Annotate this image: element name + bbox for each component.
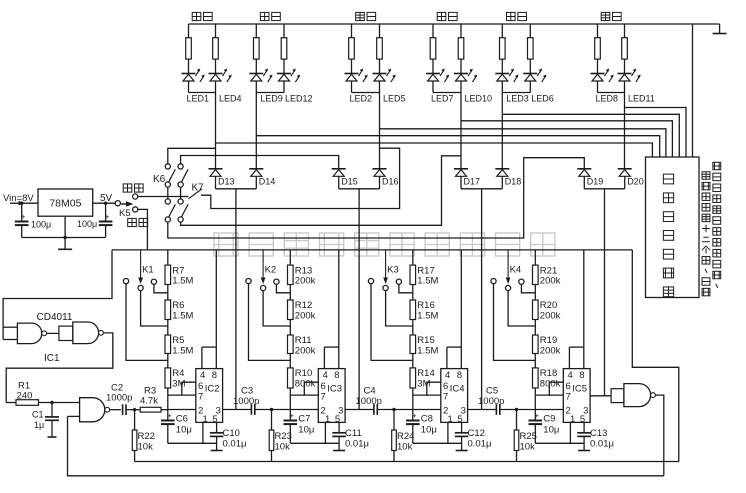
svg-text:10μ: 10μ [298, 425, 314, 436]
svg-text:D15: D15 [341, 177, 358, 187]
svg-text:1.5M: 1.5M [417, 276, 438, 287]
wire pair6 column to diode [624, 93, 626, 169]
svg-text:R6: R6 [172, 300, 184, 311]
wire chain top stage 4 [534, 250, 536, 265]
timer IC3 [318, 369, 345, 425]
LED group LED3 LED6 [495, 24, 546, 93]
svg-text:200k: 200k [295, 276, 316, 287]
wire gate b output loop to R1 [6, 333, 113, 403]
capacitor C2 [122, 404, 124, 415]
svg-text:D18: D18 [505, 177, 522, 187]
ground top right [713, 24, 727, 34]
svg-text:3M: 3M [172, 379, 185, 390]
capacitor C 100u input [15, 203, 29, 237]
resistor R13 [288, 265, 294, 300]
wire pin4 pin8 riser stage 4 [569, 250, 583, 369]
LED group LED2 LED5 [345, 24, 396, 93]
resistor R10 [288, 368, 294, 388]
svg-text:7: 7 [198, 392, 203, 403]
resistor R18 [533, 368, 539, 388]
svg-text:10μ: 10μ [176, 425, 192, 436]
diode D18 [495, 169, 509, 177]
wire K1 right contact [154, 284, 168, 293]
label 红色 [260, 12, 269, 20]
wire pin6 jog stage 3 [427, 382, 441, 395]
svg-text:8: 8 [457, 370, 462, 381]
svg-text:R12: R12 [295, 300, 312, 311]
gate IC1d nand output [611, 384, 655, 407]
svg-text:+: + [105, 212, 110, 221]
wire steering tap 2 [358, 189, 360, 410]
svg-text:C9: C9 [543, 414, 555, 425]
wire pin4 pin8 riser stage 1 [202, 250, 216, 369]
resistor R4 [165, 368, 171, 388]
wire 5V stage bus [112, 249, 632, 251]
resistor R19 [533, 335, 539, 368]
wire pin3 output stage 4 to gate [590, 395, 611, 397]
gate IC1b nand [59, 322, 104, 344]
svg-text:+: + [535, 411, 540, 420]
svg-text:1000p: 1000p [233, 396, 259, 407]
diode D16 [373, 169, 387, 177]
wire pin1 ground stage 1 [168, 422, 217, 443]
wire steering tap 3 [481, 189, 483, 410]
wire K6 contact B to diode D15 [181, 156, 339, 169]
switch K2 [246, 250, 279, 291]
switch K6 [153, 164, 188, 187]
wire K7 blade to D16 riser [201, 148, 400, 208]
svg-text:R14: R14 [417, 368, 434, 379]
wire pin2 input stage 4 [535, 409, 563, 411]
resistor R5 [165, 335, 171, 368]
wire coupling to next stage 3 [377, 408, 413, 411]
svg-text:IC2: IC2 [205, 384, 220, 395]
svg-text:1.5M: 1.5M [172, 346, 193, 357]
wire chain top stage 2 [289, 250, 291, 265]
svg-text:D16: D16 [382, 177, 399, 187]
label 红色 [506, 12, 515, 20]
diode D20 [618, 169, 632, 177]
svg-text:LED9: LED9 [260, 94, 283, 104]
svg-text:200k: 200k [540, 346, 561, 357]
svg-text:1.5M: 1.5M [172, 311, 193, 322]
capacitor C8 [406, 410, 420, 444]
wire bus right leg [632, 250, 679, 462]
capacitor C3 [250, 404, 252, 415]
capacitor C 100u output [99, 203, 113, 237]
resistor R25 [514, 410, 519, 462]
svg-text:IC3: IC3 [327, 384, 342, 395]
svg-text:D20: D20 [627, 177, 644, 187]
svg-text:LED12: LED12 [285, 94, 313, 104]
wire K6 contact A to D13 column [168, 148, 216, 164]
svg-text:100μ: 100μ [77, 219, 97, 229]
svg-text:7: 7 [320, 392, 325, 403]
svg-text:D14: D14 [259, 177, 276, 187]
svg-text:C1: C1 [32, 410, 44, 420]
svg-text:4: 4 [567, 370, 572, 381]
svg-text:LED11: LED11 [628, 94, 655, 104]
svg-text:LED2: LED2 [350, 94, 373, 104]
svg-text:0.01μ: 0.01μ [468, 439, 492, 450]
resistor R15 [410, 335, 416, 368]
svg-text:+: + [167, 411, 172, 420]
wire K2 left contact [249, 284, 291, 361]
svg-text:4: 4 [445, 370, 450, 381]
resistor R23 [269, 410, 274, 462]
svg-text:200k: 200k [295, 346, 316, 357]
svg-text:K6: K6 [153, 174, 166, 185]
wire pin1 ground stage 3 [413, 422, 462, 443]
wire pin2 input stage 1 [168, 409, 196, 411]
resistor R7 [165, 265, 171, 300]
svg-text:LED10: LED10 [465, 94, 493, 104]
ground psu [58, 238, 72, 250]
wire relay channel 3 [380, 129, 666, 157]
wire K3 middle contact [386, 291, 413, 326]
capacitor C6 [161, 410, 175, 444]
wire K7 lower contact B to diode D17 riser [181, 156, 461, 226]
wire manual line to K7 blade [138, 189, 202, 199]
wire steering tap 1 [235, 189, 237, 410]
capacitor C13 [577, 422, 591, 450]
svg-text:R15: R15 [417, 335, 434, 346]
svg-text:800k: 800k [295, 379, 316, 390]
wire pin6 jog stage 1 [182, 382, 196, 395]
switch K4 [491, 250, 524, 291]
label 绿色 [192, 12, 201, 20]
svg-text:CD4011: CD4011 [37, 312, 73, 323]
svg-text:LED8: LED8 [596, 94, 619, 104]
wire R4 bottom to pin7 junction stage 3 [412, 388, 414, 395]
annotation column 控制红绿黄十二个灯，并与 [702, 172, 710, 179]
wire diode pair join 3 [461, 177, 502, 189]
wire diode pair join 4 [584, 177, 624, 189]
wire K7 lower contact A to diode D19 [168, 158, 585, 238]
wire K4 left contact [494, 284, 536, 361]
svg-text:C10: C10 [223, 428, 240, 439]
svg-text:+: + [290, 411, 295, 420]
resistor R1 [6, 400, 79, 406]
resistor R12 [288, 300, 294, 335]
wire 5V output [93, 201, 121, 206]
svg-text:4: 4 [200, 370, 205, 381]
wire diode pair join 1 [216, 177, 257, 189]
resistor R16 [410, 300, 416, 335]
svg-text:R19: R19 [540, 335, 557, 346]
wire pair1 column to diode [215, 93, 217, 169]
svg-text:10k: 10k [397, 442, 413, 453]
svg-text:10k: 10k [138, 442, 154, 453]
wire feedback bottom loop [68, 416, 664, 475]
svg-text:6: 6 [565, 381, 570, 392]
wire K6 pole links [168, 187, 181, 199]
svg-text:1.5M: 1.5M [172, 276, 193, 287]
svg-text:IC5: IC5 [572, 384, 587, 395]
svg-text:0.01μ: 0.01μ [223, 439, 247, 450]
resistor R21 [533, 265, 539, 300]
svg-text:D17: D17 [464, 177, 481, 187]
annotation column 岗亭内显示的红绿灯相像， [713, 162, 721, 169]
wire gate output to bottom loop [655, 395, 663, 476]
svg-text:7: 7 [443, 392, 448, 403]
resistor R11 [288, 335, 294, 368]
svg-text:7: 7 [565, 392, 570, 403]
svg-text:10k: 10k [520, 442, 536, 453]
LED group LED7 LED10 [426, 24, 477, 93]
svg-text:C5: C5 [486, 386, 498, 397]
wire K1 left contact [126, 284, 168, 361]
label 黄色 [356, 12, 365, 20]
resistor R22 [132, 410, 137, 462]
svg-text:+: + [412, 411, 417, 420]
wire pair2 column to diode [255, 93, 257, 169]
ground stage 1 [211, 450, 223, 452]
wire pin3 output stage 3 [468, 409, 497, 411]
svg-text:K3: K3 [387, 265, 399, 276]
svg-text:C7: C7 [298, 414, 310, 425]
resistor R3 [140, 407, 168, 412]
svg-text:IC1: IC1 [44, 353, 60, 364]
svg-text:R16: R16 [417, 300, 434, 311]
svg-text:C4: C4 [364, 386, 376, 397]
svg-text:IC4: IC4 [450, 384, 465, 395]
resistor R24 [392, 410, 397, 462]
svg-text:R22: R22 [138, 431, 155, 442]
svg-text:D13: D13 [218, 177, 235, 187]
svg-text:K1: K1 [142, 265, 154, 276]
node 5V selector arrow [121, 201, 133, 207]
svg-text:1.5M: 1.5M [417, 346, 438, 357]
svg-text:8: 8 [334, 370, 339, 381]
diode D14 [249, 169, 263, 177]
svg-text:10k: 10k [275, 442, 291, 453]
wire K2 middle contact [263, 291, 290, 326]
LED group LED8 LED11 [591, 24, 641, 93]
wire relay channel 6 [625, 108, 687, 158]
wire chain top stage 1 [167, 250, 169, 265]
svg-text:4.7k: 4.7k [140, 396, 158, 407]
wire Vin input [10, 201, 38, 205]
svg-text:+: + [21, 212, 26, 221]
capacitor C12 [455, 422, 469, 450]
gate IC1a nand [3, 323, 47, 344]
wire pin3 output stage 1 [223, 409, 252, 411]
wire pin7 node to signal stage 4 [535, 395, 563, 409]
switch K3 [368, 250, 401, 291]
wire pin1 ground stage 2 [290, 422, 339, 443]
svg-text:C6: C6 [176, 414, 188, 425]
wire pin4 pin8 riser stage 3 [447, 250, 461, 369]
svg-text:R23: R23 [275, 431, 292, 442]
wire top supply rail [189, 23, 720, 25]
svg-text:C12: C12 [468, 428, 485, 439]
wire R4 bottom to pin7 junction stage 1 [167, 388, 169, 395]
svg-text:K4: K4 [510, 265, 522, 276]
wire K1 middle contact [141, 291, 168, 326]
svg-text:LED3: LED3 [506, 94, 529, 104]
svg-text:8: 8 [579, 370, 584, 381]
svg-text:8: 8 [212, 370, 217, 381]
label 自动 [128, 218, 137, 226]
wire K2 right contact [276, 284, 290, 293]
wire rail to relay box [692, 24, 694, 157]
wire K4 middle contact [508, 291, 535, 326]
wire pin2 input stage 3 [413, 409, 441, 411]
svg-text:1000p: 1000p [106, 393, 132, 404]
wire steering tap 4 [604, 189, 606, 396]
svg-text:6: 6 [198, 381, 203, 392]
wire K3 right contact [399, 284, 413, 293]
diode D13 [209, 169, 223, 177]
wire pin2 input stage 2 [290, 409, 318, 411]
svg-text:200k: 200k [540, 276, 561, 287]
svg-text:R18: R18 [540, 368, 557, 379]
svg-text:200k: 200k [540, 311, 561, 322]
timer IC4 [441, 369, 468, 425]
svg-text:LED5: LED5 [383, 94, 406, 104]
wire pin7 node to signal stage 1 [168, 395, 196, 409]
wire pin7 node to signal stage 2 [290, 395, 318, 409]
svg-text:0.01μ: 0.01μ [590, 439, 614, 450]
svg-text:0.01μ: 0.01μ [345, 439, 369, 450]
label 手动 [123, 184, 132, 192]
wire relay channel 2 [256, 136, 659, 157]
wire relay channel 4 [461, 121, 672, 157]
wire K3 left contact [371, 284, 413, 361]
svg-text:D19: D19 [587, 177, 604, 187]
wire K5 to 5V bus [138, 209, 148, 250]
svg-text:10μ: 10μ [543, 425, 559, 436]
relay box 六块固态继电器 [646, 157, 700, 298]
svg-text:K2: K2 [265, 265, 277, 276]
svg-text:6: 6 [443, 381, 448, 392]
resistor R20 [533, 300, 539, 335]
resistor R17 [410, 265, 416, 300]
switch contact K5 自动 [133, 207, 138, 212]
svg-text:C3: C3 [241, 386, 253, 397]
capacitor C11 [332, 422, 346, 450]
wire bus left leg to IC1 [3, 250, 112, 340]
wire gate c output [110, 409, 121, 411]
svg-text:6: 6 [320, 381, 325, 392]
svg-text:R11: R11 [295, 335, 312, 346]
watermark text 杭州将睿科技有限公司 [214, 233, 555, 256]
wire pair5 column to diode [501, 93, 503, 169]
switch K7 [165, 183, 204, 223]
svg-text:1μ: 1μ [34, 420, 44, 430]
svg-text:1.5M: 1.5M [417, 311, 438, 322]
svg-text:C13: C13 [590, 428, 607, 439]
svg-text:LED6: LED6 [531, 94, 554, 104]
timer IC2 [196, 369, 223, 425]
wire pin6 jog stage 2 [304, 382, 318, 395]
label 绿色 [437, 12, 446, 20]
wire ground bus [135, 461, 679, 463]
svg-text:R25: R25 [520, 431, 537, 442]
wire pair4 column to diode [460, 93, 462, 169]
svg-text:100μ: 100μ [31, 220, 51, 230]
capacitor C5 [495, 404, 497, 415]
wire R4 bottom to pin7 junction stage 2 [289, 388, 291, 395]
switch contact 手动 [133, 194, 138, 199]
svg-text:C8: C8 [421, 414, 433, 425]
capacitor C10 [210, 422, 224, 450]
svg-text:4: 4 [322, 370, 327, 381]
wire gate a to gate b [47, 332, 59, 334]
capacitor C7 [284, 410, 298, 444]
svg-text:10μ: 10μ [421, 425, 437, 436]
svg-text:LED4: LED4 [219, 94, 242, 104]
diode D17 [454, 169, 468, 177]
wire pin1 ground stage 4 [535, 422, 584, 443]
svg-text:78M05: 78M05 [49, 198, 81, 210]
wire pin4 pin8 riser stage 2 [324, 250, 338, 369]
wire coupling to next stage 4 [500, 408, 536, 411]
svg-text:R24: R24 [397, 431, 414, 442]
svg-text:LED7: LED7 [431, 94, 454, 104]
svg-text:200k: 200k [295, 311, 316, 322]
svg-text:R20: R20 [540, 300, 557, 311]
wire pair3 column to diode [379, 93, 381, 169]
capacitor C1 [45, 401, 59, 437]
regulator U 78M05 [38, 189, 93, 216]
svg-text:R4: R4 [172, 368, 184, 379]
svg-text:K5: K5 [119, 208, 131, 219]
svg-text:1000p: 1000p [478, 396, 504, 407]
gate IC1c nand [68, 398, 110, 422]
timer IC5 [563, 369, 590, 425]
diode D19 [577, 169, 591, 177]
switch K1 [123, 250, 156, 291]
wire pin6 jog stage 4 [549, 382, 563, 395]
svg-text:R21: R21 [540, 265, 557, 276]
wire pin7 node to signal stage 3 [413, 395, 441, 409]
wire relay channel 1 [216, 143, 653, 157]
svg-text:LED1: LED1 [187, 94, 210, 104]
label 黄色 [601, 12, 610, 20]
svg-text:3M: 3M [417, 379, 430, 390]
wire C2 to R3 [126, 408, 140, 411]
svg-text:C11: C11 [345, 428, 362, 439]
wire K4 right contact [521, 284, 535, 293]
wire coupling to next stage 2 [255, 408, 290, 411]
wire psu ground rail [22, 216, 106, 239]
wire R4 bottom to pin7 junction stage 4 [534, 388, 536, 395]
svg-text:R13: R13 [295, 265, 312, 276]
capacitor C9 [529, 410, 543, 444]
svg-text:R5: R5 [172, 335, 184, 346]
ground stage 4 [578, 450, 590, 452]
LED group LED9 LED12 [249, 24, 300, 93]
ground stage 2 [333, 450, 345, 452]
svg-text:R17: R17 [417, 265, 434, 276]
diode D15 [332, 169, 346, 177]
resistor R14 [410, 368, 416, 388]
svg-text:R7: R7 [172, 265, 184, 276]
LED group LED1 LED4 [182, 24, 232, 93]
resistor R6 [165, 300, 171, 335]
wire pin3 output stage 2 [345, 409, 374, 411]
capacitor C4 [373, 404, 375, 415]
wire relay channel 5 [502, 114, 679, 157]
svg-text:800k: 800k [540, 379, 561, 390]
svg-text:1000p: 1000p [356, 396, 382, 407]
ground stage 3 [456, 450, 468, 452]
wire diode pair join 2 [339, 177, 380, 189]
wire chain top stage 3 [412, 250, 414, 265]
svg-text:R10: R10 [295, 368, 312, 379]
